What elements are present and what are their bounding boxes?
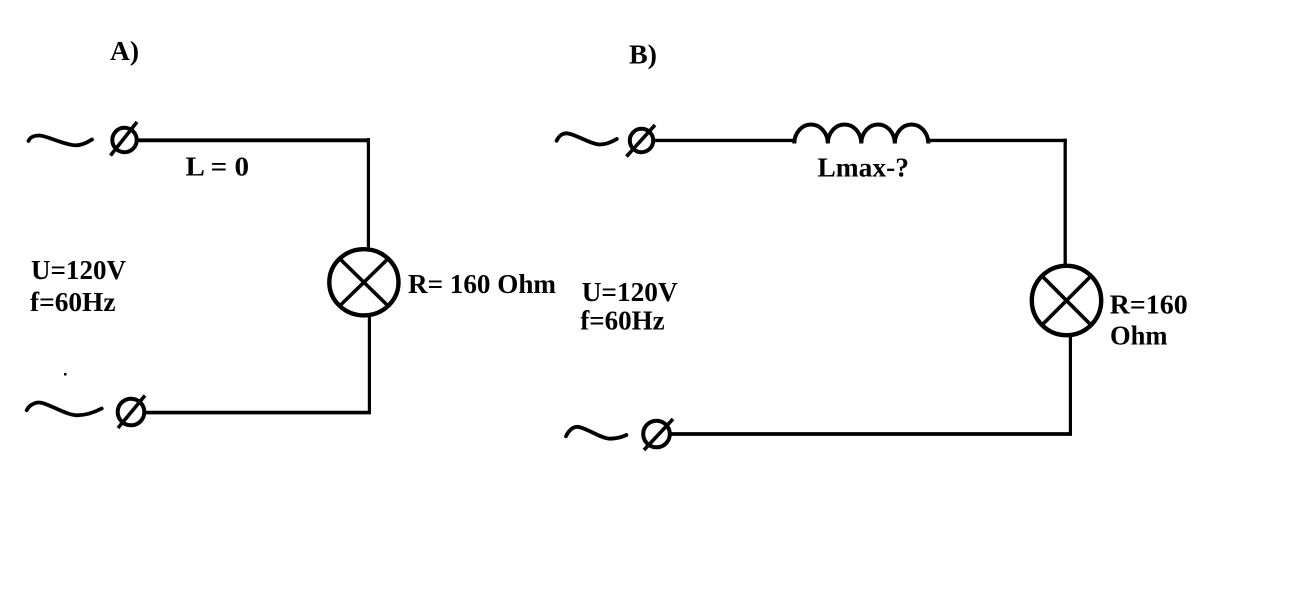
lamp (circuit A) R=160 Ohm xyxy=(329,249,398,315)
terminal Ø (circuit B, bottom) xyxy=(643,419,673,450)
svg-text:U=120V: U=120V xyxy=(31,254,126,285)
svg-text:R=160: R=160 xyxy=(1110,289,1188,320)
terminal Ø (circuit A, top) xyxy=(111,122,138,156)
AC source tilde (circuit A, top) xyxy=(29,135,93,145)
terminal Ø (circuit A, bottom) xyxy=(118,396,145,429)
svg-text:U=120V: U=120V xyxy=(582,276,678,307)
inductor Lmax xyxy=(794,125,928,144)
wire: B right vertical lower xyxy=(1069,334,1072,436)
svg-text:f=60Hz: f=60Hz xyxy=(30,286,116,317)
lamp (circuit B) R=160 Ohm xyxy=(1032,266,1101,335)
terminal Ø (circuit B, top) xyxy=(627,125,656,157)
wire: A top horizontal xyxy=(137,138,371,142)
wire: B bottom horizontal xyxy=(672,432,1073,436)
wire: B top horizontal left xyxy=(653,139,796,142)
svg-text:R= 160 Ohm: R= 160 Ohm xyxy=(408,268,556,299)
stray dot xyxy=(64,373,67,376)
svg-text:Lmax-?: Lmax-? xyxy=(818,152,910,183)
AC source tilde (circuit B, top) xyxy=(557,133,617,144)
wire: A bottom horizontal xyxy=(146,411,371,415)
wire: B top horizontal right xyxy=(928,139,1067,142)
svg-text:L = 0: L = 0 xyxy=(186,151,250,182)
svg-text:Ohm: Ohm xyxy=(1110,320,1168,351)
svg-text:f=60Hz: f=60Hz xyxy=(580,305,665,336)
wire: A right vertical lower xyxy=(368,316,371,415)
AC source tilde (circuit B, bottom) xyxy=(566,427,626,439)
wire: B right vertical upper xyxy=(1064,139,1067,266)
AC source tilde (circuit A, bottom) xyxy=(27,403,102,416)
svg-text:A): A) xyxy=(110,35,139,66)
svg-text:B): B) xyxy=(629,39,657,70)
wire: A right vertical upper xyxy=(367,138,370,249)
